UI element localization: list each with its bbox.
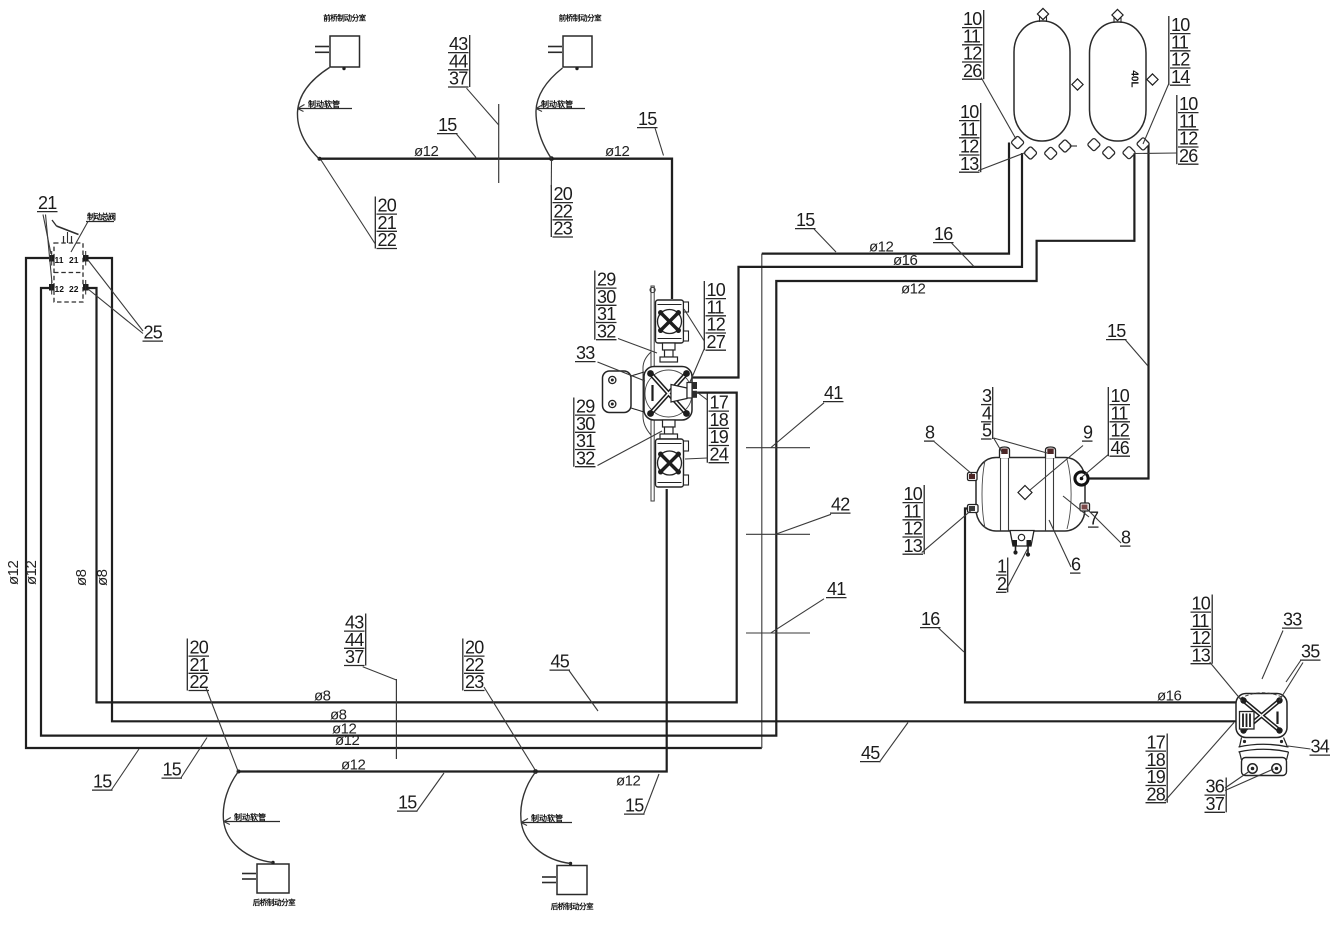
svg-text:22: 22 <box>69 284 79 294</box>
pipe ø16 wet reservoir 6 to rear chamber 33 <box>965 509 1236 703</box>
svg-text:46: 46 <box>1111 438 1130 458</box>
brake chamber box front-left <box>315 36 360 70</box>
label stack 10/11/12/46 <box>1082 386 1130 477</box>
svg-text:15: 15 <box>398 793 417 813</box>
svg-text:前桥制动分室: 前桥制动分室 <box>559 13 602 23</box>
svg-text:ø12: ø12 <box>901 281 926 298</box>
joint 43/44/37 tick on bottom pipes <box>395 679 397 759</box>
label stack 3/4/5 <box>981 386 1047 453</box>
tank 1 bottom ports 11/12/13/26 <box>1011 136 1077 160</box>
label stack 20/21/22 bottom <box>187 638 238 771</box>
label stack 35 <box>1279 642 1321 701</box>
wire junction dot hose 4 <box>533 769 538 774</box>
label 制动总阀 (master valve caption) <box>71 212 116 253</box>
coupling stem lower <box>660 420 678 439</box>
relay valve main body 33 <box>644 367 697 421</box>
brake chamber box rear-right <box>542 862 587 895</box>
svg-text:28: 28 <box>1147 784 1166 804</box>
svg-text:33: 33 <box>1283 610 1302 630</box>
label stack 8 (reservoir left) <box>924 423 972 474</box>
wire riser segment (thin) of same pipe <box>761 254 763 748</box>
svg-text:ø8: ø8 <box>73 569 90 586</box>
label stack 25 <box>88 260 163 343</box>
svg-text:23: 23 <box>554 219 573 239</box>
svg-text:21: 21 <box>38 193 57 213</box>
svg-text:ø16: ø16 <box>893 252 918 269</box>
label stack 15 (bottom left) <box>162 738 208 780</box>
label stack 15 (top pipe left) <box>437 115 476 157</box>
label stack 45 (left) <box>550 652 599 711</box>
svg-text:后桥制动分室: 后桥制动分室 <box>253 897 296 907</box>
pipe ø12 tank 2 to master valve port 12 <box>41 154 1134 736</box>
pipe ø12 continuation to air tank 1 bottom port <box>762 143 1009 254</box>
label 制动软管 (brake hose) <box>521 813 572 826</box>
label stack 29/30/31/32 upper <box>595 270 657 353</box>
reservoir left fitting 8 <box>968 473 978 481</box>
label stack 17/18/19/24 <box>685 391 729 464</box>
svg-text:14: 14 <box>1171 67 1190 87</box>
label stack 29/30/31/32 lower <box>574 397 662 469</box>
svg-text:37: 37 <box>449 69 468 89</box>
clamp 42 tick <box>746 533 810 535</box>
label stack 16 (riser left) <box>920 609 964 652</box>
pipe ø12 relay valve delivery to front hoses <box>238 489 667 772</box>
label stack 21 (master valve) <box>37 193 58 283</box>
valve 21 port fitting <box>49 284 55 291</box>
svg-text:13: 13 <box>904 536 923 556</box>
mounting bracket 33 with bolts <box>603 371 645 413</box>
label stack 15 (pipe B) <box>795 210 836 252</box>
quick release valve (lower unit 29/30/31/32) <box>656 439 689 487</box>
label stack 1/2 <box>996 547 1029 594</box>
svg-text:15: 15 <box>438 115 457 135</box>
svg-text:26: 26 <box>963 61 982 81</box>
svg-text:5: 5 <box>982 421 992 441</box>
valve 21 port fitting <box>83 255 89 262</box>
label 制动软管 (brake hose) <box>298 99 353 112</box>
pipe ø8 master valve port 22 to relay valve control port <box>87 288 737 702</box>
label stack 16 (pipe C) <box>933 224 974 266</box>
chamber 33 clamp band 35 and bracket 34 <box>1239 738 1289 776</box>
svg-text:42: 42 <box>831 495 850 515</box>
wet air reservoir 6 <box>976 458 1085 532</box>
wire junction dot hose 2 on pipe 15 <box>549 156 554 161</box>
svg-text:前桥制动分室: 前桥制动分室 <box>323 13 366 23</box>
label stack 10/11/12/13 (reservoir) <box>903 484 975 556</box>
label stack 20/21/22 top <box>321 160 397 250</box>
relay valve assembly 33 mounting plate <box>643 286 655 501</box>
svg-text:ø12: ø12 <box>605 143 630 160</box>
coupling stem upper <box>660 343 678 362</box>
label stack 33 (rear chamber) <box>1262 610 1303 679</box>
brake chamber box rear-left <box>242 861 289 893</box>
svg-text:ø12: ø12 <box>341 757 366 774</box>
svg-text:ø16: ø16 <box>1157 688 1182 705</box>
pedal symbol of valve 21 <box>52 220 79 243</box>
svg-text:41: 41 <box>827 579 846 599</box>
svg-text:11: 11 <box>55 255 64 265</box>
label stack 43/44/37 bottom <box>344 613 396 680</box>
reservoir right lower fitting 8 <box>1080 503 1090 511</box>
brake master valve 21 (dual circuit foot valve) <box>54 243 83 302</box>
label stack 20/22/23 top <box>551 160 573 239</box>
rear brake chamber 33 body <box>1236 693 1287 738</box>
svg-text:13: 13 <box>960 154 979 174</box>
label stack 10/11/12/14 tank2 upper <box>1143 15 1191 144</box>
svg-text:40L: 40L <box>1129 70 1140 87</box>
svg-text:37: 37 <box>1206 794 1225 814</box>
svg-text:后桥制动分室: 后桥制动分室 <box>551 901 594 911</box>
label stack 17/18/19/28 <box>1146 723 1235 805</box>
svg-text:34: 34 <box>1311 737 1330 757</box>
label stack 10/11/12/13 tank1 lower <box>959 102 1026 174</box>
svg-text:ø12: ø12 <box>414 143 439 160</box>
label stack 10/11/12/13 (rear chamber) <box>1191 594 1243 701</box>
svg-text:8: 8 <box>1121 528 1131 548</box>
label stack 33 (relay valve) <box>575 343 645 381</box>
svg-text:33: 33 <box>576 343 595 363</box>
pipe ø12 tank 1 to master valve port 11 <box>26 258 762 748</box>
label stack 15 (top pipe right) <box>637 109 664 155</box>
label stack 20/22/23 bottom <box>463 638 536 771</box>
svg-text:15: 15 <box>625 796 644 816</box>
svg-text:35: 35 <box>1301 642 1320 662</box>
label stack 45 (right) <box>860 723 908 764</box>
hose 20/21/22 (top-left brake hose) <box>297 68 329 159</box>
svg-text:45: 45 <box>551 652 570 672</box>
reservoir top fitting 3/4/5 (strap 1) <box>1000 447 1010 458</box>
svg-text:32: 32 <box>576 448 595 468</box>
svg-text:22: 22 <box>190 672 209 692</box>
svg-text:45: 45 <box>861 743 880 763</box>
svg-text:6: 6 <box>1071 555 1081 575</box>
svg-text:16: 16 <box>934 224 953 244</box>
label stack 7 <box>1063 496 1099 529</box>
label 制动软管 (brake hose) <box>224 812 280 825</box>
svg-text:12: 12 <box>55 284 65 294</box>
reservoir left lower fitting 10/11/12/13 <box>968 505 979 513</box>
svg-text:ø12: ø12 <box>869 239 894 256</box>
svg-text:ø12: ø12 <box>5 560 22 585</box>
svg-text:16: 16 <box>921 609 940 629</box>
clamp 41 tick (lower) <box>746 632 810 634</box>
label stack 15 (riser right) <box>1106 321 1148 366</box>
label stack 10/11/12/27 <box>684 280 726 382</box>
pipe 15 ø12 front axle supply (top horizontal to relay valve) <box>319 159 672 299</box>
svg-text:2: 2 <box>997 574 1007 594</box>
svg-text:27: 27 <box>707 332 726 352</box>
wire junction dot hose 1 on pipe 15 <box>318 157 322 161</box>
svg-text:ø8: ø8 <box>94 569 111 586</box>
label stack 15 (bottom right) <box>624 774 659 816</box>
hose 20/22/23 (top-right brake hose) <box>536 68 563 159</box>
label stack 6 <box>1049 520 1081 575</box>
air tank 10 (right 40L) <box>1090 9 1159 141</box>
svg-text:制动软管: 制动软管 <box>234 812 266 822</box>
svg-text:32: 32 <box>597 321 616 341</box>
svg-text:15: 15 <box>796 210 815 230</box>
svg-text:ø8: ø8 <box>314 688 331 705</box>
svg-text:41: 41 <box>824 383 843 403</box>
label stack 43/44/37 top <box>448 34 499 125</box>
svg-text:15: 15 <box>638 109 657 129</box>
hose 20/22/23 (bottom-right brake hose) <box>521 772 571 864</box>
label stack 36/37 <box>1205 769 1274 814</box>
pipe ø16 wet reservoir 6 to air tank 2 <box>1086 144 1149 479</box>
reservoir 6 center diamond port 9 <box>1018 486 1032 500</box>
label stack 42 <box>776 495 850 534</box>
label stack 10/11/12/26 tank1 upper <box>962 9 1016 139</box>
svg-text:制动总阀: 制动总阀 <box>87 212 116 222</box>
label stack 41 (upper) <box>771 383 844 447</box>
svg-text:8: 8 <box>925 423 935 443</box>
label stack 9 <box>1030 423 1093 490</box>
svg-text:26: 26 <box>1179 146 1198 166</box>
label stack 34 <box>1288 737 1330 757</box>
label stack 15 (bottom far left) <box>92 749 139 792</box>
svg-text:22: 22 <box>378 230 397 250</box>
svg-text:21: 21 <box>69 255 79 265</box>
label stack 41 (lower) <box>771 579 847 633</box>
quick release valve (upper unit 29/30/31/32) <box>656 300 689 343</box>
tank 2 bottom ports 11/12/14/26 <box>1087 137 1150 159</box>
svg-text:ø12: ø12 <box>616 773 641 790</box>
svg-text:23: 23 <box>465 672 484 692</box>
svg-text:制动软管: 制动软管 <box>531 813 563 823</box>
joint 43/44/37 tick on top pipe <box>498 104 500 183</box>
svg-text:ø12: ø12 <box>335 732 360 749</box>
svg-text:15: 15 <box>163 760 182 780</box>
label stack 10/11/12/26 tank2 lower <box>1134 94 1199 166</box>
clamp 41 tick (upper) <box>746 447 810 449</box>
label stack 8 (reservoir right) <box>1087 509 1131 548</box>
svg-text:制动软管: 制动软管 <box>541 99 573 109</box>
hose 20/21/22 (bottom-left brake hose) <box>223 772 273 863</box>
svg-text:制动软管: 制动软管 <box>308 99 340 109</box>
drain valve 1/2 under reservoir <box>1010 531 1034 557</box>
svg-text:37: 37 <box>345 647 364 667</box>
air tank 10 (left 25L) <box>1014 8 1083 141</box>
reservoir right ring port 10/11/12/46 <box>1075 472 1088 485</box>
svg-text:24: 24 <box>710 444 729 464</box>
svg-text:ø12: ø12 <box>23 560 40 585</box>
reservoir top fitting 3/4/5 (strap 2) <box>1046 447 1056 458</box>
label 制动软管 (brake hose) <box>536 99 585 112</box>
label stack 15 (bottom mid) <box>397 773 444 813</box>
svg-text:25: 25 <box>144 323 163 343</box>
svg-text:9: 9 <box>1083 423 1093 443</box>
svg-text:7: 7 <box>1089 509 1099 529</box>
svg-text:15: 15 <box>1107 321 1126 341</box>
pipe ø8 master valve port 21 to rear brake chamber 33 <box>87 258 1237 721</box>
brake chamber box front-right <box>548 36 592 70</box>
svg-text:13: 13 <box>1192 645 1211 665</box>
valve 21 port fitting <box>49 255 55 262</box>
wire junction dot hose 3 <box>237 770 241 774</box>
valve 21 port fitting <box>83 284 89 291</box>
pipe ø16 relay valve to air tank 1 <box>692 153 1022 378</box>
svg-text:15: 15 <box>93 772 112 792</box>
